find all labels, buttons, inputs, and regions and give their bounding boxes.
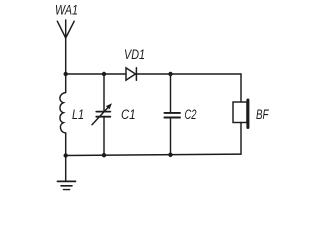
svg-text:WA1: WA1 <box>55 2 78 17</box>
wire: left branch from node A down to L1 <box>65 74 67 93</box>
wire: top bus from node A to diode anode <box>66 73 126 75</box>
wire: antenna lead down to node A <box>65 38 67 74</box>
node C (junction top of C2) <box>168 72 172 76</box>
node E (junction bottom of C1) <box>102 153 106 157</box>
svg-text:C1: C1 <box>121 107 136 122</box>
svg-text:BF: BF <box>256 107 269 122</box>
wire: bottom bus <box>66 154 241 155</box>
antenna WA1 <box>57 20 74 38</box>
wire: right branch from top-right corner down to BF <box>240 74 242 102</box>
node D (junction bottom-left) <box>63 153 67 157</box>
wire: C1 bottom lead <box>103 117 105 156</box>
diode VD1 <box>126 68 136 80</box>
wire: C1 top lead <box>103 74 105 112</box>
node A (junction top-left) <box>63 72 67 76</box>
earphone BF <box>233 100 248 128</box>
wire: from BF bottom down to bottom-right corner <box>240 123 242 155</box>
capacitor C2 <box>164 113 180 118</box>
wire: top bus from diode cathode to top-right corner <box>136 73 241 75</box>
ground <box>58 181 76 189</box>
wire: from L1 down to node D <box>65 133 67 181</box>
svg-text:VD1: VD1 <box>124 47 145 62</box>
node F (junction bottom of C2) <box>168 153 172 157</box>
capacitor C1 (variable) <box>92 103 112 125</box>
svg-text:C2: C2 <box>185 107 197 122</box>
svg-text:L1: L1 <box>72 107 84 122</box>
wire: C2 top lead <box>170 74 172 113</box>
wire: C2 bottom lead <box>170 118 172 155</box>
node B (junction top of C1) <box>102 72 106 76</box>
inductor L1 <box>60 93 66 134</box>
